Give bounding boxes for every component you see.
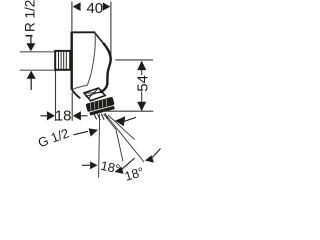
escutcheon top edge — [72, 31, 96, 33]
dim arrow tail below — [30, 79, 32, 91]
G 1/2 leader line — [74, 131, 89, 135]
dim 54 up arrow — [137, 61, 146, 71]
escutcheon corner chamfer — [95, 33, 104, 44]
dim 40 left arrow — [73, 2, 81, 11]
hose swivel line L4 — [108, 115, 135, 140]
leader dash under R 1/2 — [26, 35, 33, 37]
escutcheon bottom thin edge — [73, 85, 87, 89]
fitting hatch stripes — [59, 52, 67, 69]
hose swivel line L1 — [99, 114, 100, 178]
dim 18 left arrow — [47, 111, 55, 120]
dim arrow up to pipe bottom — [27, 71, 36, 79]
pipe bottom line — [20, 69, 56, 71]
svg-text:54: 54 — [134, 75, 151, 92]
svg-text:R 1/2: R 1/2 — [23, 0, 38, 32]
dim 18 right extension line — [71, 92, 73, 121]
escutcheon bottom-left curve into nozzle — [72, 90, 81, 99]
dim 54 top extension line — [115, 59, 153, 61]
dim 18 (thread length) left extension line — [55, 71, 57, 121]
angle dim 18 left: arrow to L1 — [82, 164, 90, 166]
dim 54 line — [141, 70, 143, 76]
nozzle cross line 2 — [88, 88, 98, 98]
angle dim 18 right arrow — [145, 155, 154, 162]
svg-text:40: 40 — [86, 0, 103, 17]
dim 18 left arrow tail — [41, 115, 48, 117]
dim 54 bottom extension line — [103, 110, 153, 112]
hose stub lines under nut — [94, 113, 108, 120]
angle dim tail near nut — [125, 117, 137, 121]
angle dim 18 left right-arrow tail — [122, 158, 135, 170]
nozzle outline — [84, 88, 105, 101]
dim 18 right arrow — [73, 111, 81, 120]
dim 40 right extension line — [110, 2, 112, 60]
svg-text:18: 18 — [55, 108, 72, 125]
dim 54 down arrow — [137, 102, 146, 112]
pipe top line — [20, 51, 56, 53]
dim 18 right arrow tail — [81, 115, 88, 117]
escutcheon inner face line — [87, 34, 95, 86]
leader arrow down onto pipe top — [26, 43, 35, 51]
dim 40 right arrow — [103, 2, 111, 10]
escutcheon outer bold curve — [100, 43, 111, 91]
angle dim 18 right arrow tail — [152, 149, 161, 159]
nozzle cross line 1 — [85, 92, 102, 95]
dim 40 left extension line — [71, 2, 73, 32]
hose swivel line L2 — [104, 114, 123, 162]
nozzle middle line — [85, 92, 100, 97]
threaded fitting box — [55, 51, 70, 70]
leader stem R 1/2 — [30, 35, 32, 44]
hose swivel line L3 — [106, 115, 145, 163]
knurled nut — [85, 97, 115, 116]
angle dim 18 left right-arrow — [115, 166, 124, 174]
angle dim arrow near nut (up-left) — [115, 116, 125, 126]
G 1/2 leader arrow — [89, 128, 98, 136]
wall line — [70, 31, 72, 89]
